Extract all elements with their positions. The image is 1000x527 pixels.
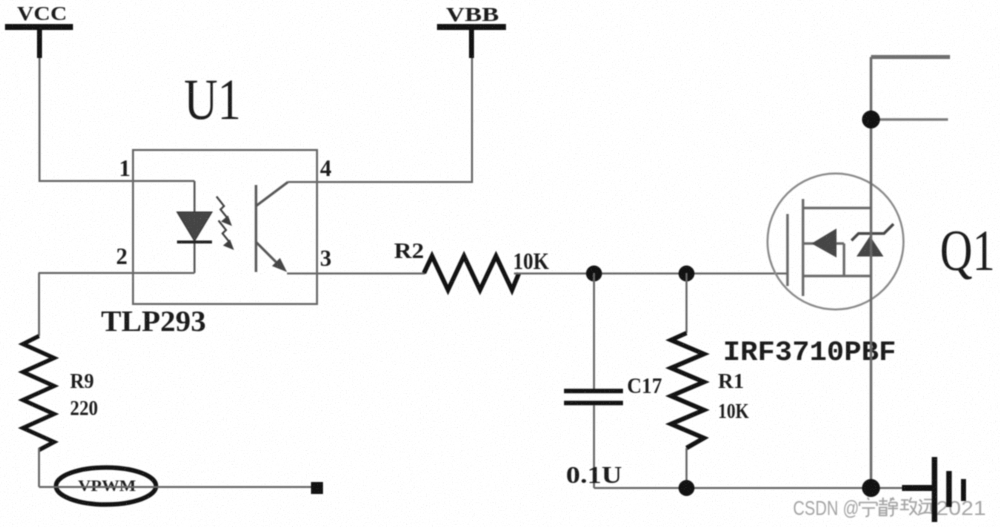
phototransistor emitter (256, 242, 282, 268)
svg-text:2: 2 (116, 244, 128, 269)
wire pin3 to R2 (287, 273, 425, 275)
body diode (zener) (852, 224, 894, 257)
capacitor C17 (564, 273, 623, 488)
svg-text:10K: 10K (718, 399, 750, 423)
wire pin4 horizontal (288, 181, 472, 183)
wire R2 to gate (514, 273, 787, 275)
resistor R1 (671, 273, 704, 488)
junction dot top-right (862, 111, 880, 129)
svg-text:10K: 10K (513, 249, 549, 274)
svg-text:CSDN @: CSDN @ (793, 498, 859, 520)
resistor R9 (23, 273, 54, 487)
optocoupler U1 box outline (133, 150, 317, 304)
svg-text:C17: C17 (627, 373, 662, 398)
wire VBB vertical (471, 58, 473, 183)
svg-text:2021: 2021 (936, 498, 986, 520)
phototransistor base bar (255, 185, 258, 272)
junction dot at C17 (586, 266, 602, 282)
mosfet drain link (803, 207, 872, 210)
svg-text:Q1: Q1 (940, 218, 995, 283)
svg-text:U1: U1 (184, 67, 241, 132)
junction dot at R1 (679, 266, 695, 282)
svg-text:R2: R2 (394, 238, 424, 263)
bottom ground wire (594, 487, 903, 489)
terminal square (311, 482, 323, 494)
svg-text:R9: R9 (70, 369, 94, 393)
power VCC (5, 3, 73, 58)
wire VCC vertical (39, 58, 41, 181)
mosfet body link + arrow (804, 229, 844, 277)
power VBB (437, 4, 506, 58)
svg-text:R1: R1 (718, 369, 744, 393)
wire pin1 horizontal (39, 180, 195, 182)
ground symbol (902, 457, 964, 522)
light arrow 2 (219, 221, 230, 242)
mosfet drain-source vertical wire (870, 57, 873, 488)
svg-text:TLP293: TLP293 (101, 305, 206, 338)
mosfet channel bar (802, 199, 805, 296)
mosfet gate bar (786, 214, 789, 286)
svg-text:3: 3 (320, 246, 332, 271)
mosfet source link (803, 275, 872, 278)
svg-text:4: 4 (320, 156, 332, 181)
svg-text:220: 220 (70, 396, 98, 420)
svg-text:0.1U: 0.1U (566, 463, 622, 489)
watermark (793, 498, 986, 521)
LED D inside U1 (177, 181, 212, 273)
wire pin2 horizontal (39, 272, 195, 274)
junction dot R1 bottom (679, 480, 695, 496)
svg-text:1: 1 (119, 156, 131, 181)
svg-text:VBB: VBB (446, 4, 499, 26)
wire top-right upper (871, 55, 950, 59)
wire VPWM to terminal (39, 486, 314, 488)
light arrow 1 (217, 197, 228, 218)
svg-text:VCC: VCC (17, 3, 67, 25)
resistor R2 (424, 256, 519, 290)
wire top-right lower (871, 118, 948, 121)
node VPWM (56, 468, 156, 505)
phototransistor collector (256, 182, 288, 206)
mosfet Q1 circle (768, 174, 904, 310)
junction dot source bottom (862, 479, 880, 497)
